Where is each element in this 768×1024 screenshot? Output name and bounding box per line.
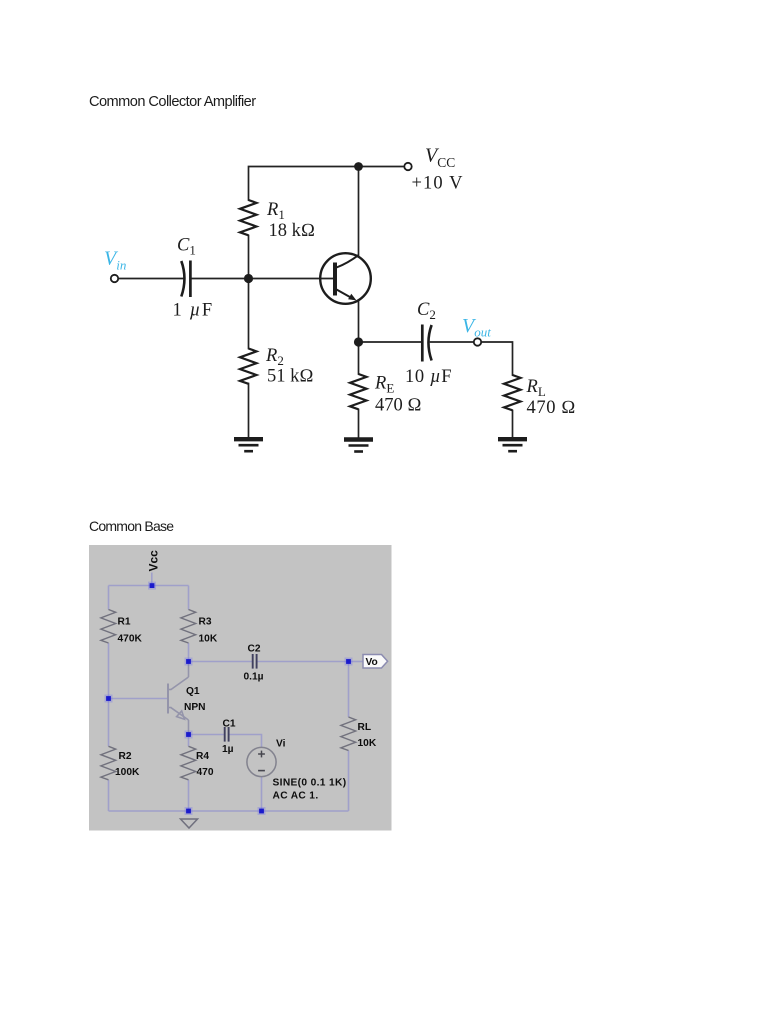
node base junction: [105, 695, 113, 703]
wire R2 bottom to ground: [248, 384, 250, 438]
svg-text:1 µF: 1 µF: [173, 301, 214, 321]
wire C2 to Vout terminal: [431, 341, 474, 343]
svg-text:R1: R1: [266, 200, 285, 222]
junction dots (blue squares): [105, 582, 353, 815]
capacitor C2 curved plate: [428, 325, 431, 361]
resistor R4 470: [181, 746, 196, 779]
svg-text:10K: 10K: [199, 633, 218, 644]
node Vo junction: [345, 658, 353, 666]
wire Vi bottom to bottom rail: [261, 776, 263, 811]
capacitor C1 1u plates: [225, 727, 229, 742]
svg-text:Vin: Vin: [104, 248, 126, 273]
source Vi circle: [247, 747, 276, 776]
svg-text:470: 470: [197, 767, 214, 778]
ground flag: [181, 819, 198, 828]
node R4 bottom junction: [185, 807, 193, 815]
terminal Vin open circle: [111, 275, 118, 282]
wire Vo node to RL: [348, 662, 350, 718]
source Vi plus sign: [258, 751, 265, 758]
wire C1 to Vi top: [229, 735, 261, 748]
title: Common Collector Amplifier: [89, 94, 256, 110]
resistor RL 470: [504, 375, 521, 410]
svg-text:NPN: NPN: [184, 702, 206, 713]
resistor RE 470: [350, 374, 367, 409]
source Vi minus sign: [258, 770, 265, 772]
svg-text:R3: R3: [199, 617, 212, 628]
resistor R1 470K: [101, 610, 116, 643]
screenshot gray background: [89, 545, 392, 831]
svg-text:RL: RL: [526, 377, 546, 399]
wire R4 bottom to bottom rail: [188, 780, 190, 811]
svg-text:C2: C2: [417, 300, 436, 322]
wire top rail: [109, 585, 189, 587]
node Vcc junction: [148, 582, 156, 590]
svg-text:RE: RE: [374, 374, 394, 396]
wire R2 bottom to bottom rail: [108, 780, 110, 811]
svg-text:C2: C2: [248, 643, 261, 654]
wire collector node to C2: [189, 661, 253, 663]
resistor R3 10K: [181, 610, 196, 643]
wire top rail to R1: [108, 586, 110, 610]
svg-text:RL: RL: [358, 722, 372, 733]
wire RL bottom to bottom rail: [348, 751, 350, 812]
svg-text:R1: R1: [118, 617, 131, 628]
ground below R2: [234, 439, 263, 451]
svg-text:C1: C1: [223, 718, 236, 729]
wire base node to Q1 base: [109, 698, 168, 700]
node collector junction: [185, 658, 193, 666]
wire top rail to R3: [188, 586, 190, 610]
node: emitter junction dot: [354, 337, 363, 346]
svg-text:R2: R2: [119, 751, 132, 762]
transistor base bar: [333, 263, 337, 296]
wire emitter node to R4: [188, 735, 190, 747]
svg-text:10K: 10K: [358, 738, 377, 749]
wire emitter down to emitter node: [358, 301, 360, 342]
svg-text:Vo: Vo: [366, 657, 378, 668]
resistor R2 51k: [240, 349, 257, 384]
transistor emitter arrowhead: [348, 294, 356, 301]
ground below RL: [498, 439, 527, 451]
wire RL bottom to ground: [512, 411, 514, 439]
resistor R1 18k: [240, 200, 257, 235]
svg-text:1µ: 1µ: [222, 744, 234, 755]
svg-text:R2: R2: [265, 346, 284, 368]
capacitor C1 straight plate: [189, 261, 192, 298]
node Vi bottom junction: [258, 807, 266, 815]
svg-text:100K: 100K: [115, 767, 140, 778]
wire Vout terminal to RL: [481, 342, 512, 375]
svg-text:18 kΩ: 18 kΩ: [269, 221, 316, 241]
svg-text:0.1µ: 0.1µ: [244, 672, 264, 683]
svg-text:SINE(0 0.1 1K): SINE(0 0.1 1K): [273, 777, 347, 788]
svg-text:51 kΩ: 51 kΩ: [267, 366, 314, 386]
wire R1 bottom to R2 top: [108, 643, 110, 746]
wire Vo node to flag: [349, 661, 363, 663]
wire R1 bottom to base node: [248, 236, 250, 279]
ground below RE: [344, 440, 373, 452]
transistor emitter lead: [337, 290, 354, 300]
resistor RL 10K: [341, 717, 356, 750]
node: top rail junction dot: [354, 162, 363, 171]
title: Common Base: [89, 518, 173, 534]
wire C2 to Vo node: [257, 661, 348, 663]
wire Vcc stub: [151, 573, 153, 586]
wire bottom rail: [109, 810, 349, 812]
transistor collector lead: [337, 255, 359, 268]
node emitter junction: [185, 731, 193, 739]
wire base node to R2 top: [248, 279, 250, 349]
wire emitter node to C1: [189, 734, 225, 736]
wire emitter node to RE: [358, 342, 360, 374]
svg-text:AC AC 1.: AC AC 1.: [273, 790, 319, 801]
svg-text:470 Ω: 470 Ω: [375, 396, 422, 416]
wire emitter node to C2: [359, 341, 422, 343]
svg-text:VCC: VCC: [425, 145, 455, 171]
wire top rail: [249, 167, 405, 201]
wire Vin to C1: [118, 278, 184, 280]
svg-text:+10 V: +10 V: [412, 174, 464, 194]
resistor R2 100K: [101, 746, 116, 779]
wire R3 bottom to collector node: [188, 643, 190, 662]
svg-text:10 µF: 10 µF: [405, 367, 452, 387]
svg-text:Q1: Q1: [186, 686, 200, 697]
transistor Q1 NPN: [168, 664, 189, 735]
svg-text:R4: R4: [196, 751, 209, 762]
terminal Vout open circle: [474, 338, 481, 345]
capacitor C1 1uF curved plate: [181, 261, 184, 297]
node: base junction dot: [244, 274, 253, 283]
svg-text:Vi: Vi: [276, 739, 286, 750]
svg-text:470 Ω: 470 Ω: [527, 398, 577, 418]
svg-text:Vout: Vout: [462, 315, 491, 340]
wire RE bottom to ground: [358, 410, 360, 439]
capacitor C2 straight plate: [421, 325, 424, 362]
transistor Q circle: [320, 253, 371, 304]
output flag Vo: [363, 655, 388, 669]
wire collector to top rail: [358, 167, 360, 257]
terminal Vcc open circle: [404, 163, 411, 170]
svg-text:C1: C1: [177, 236, 196, 258]
capacitor C2 0.1u plates: [253, 654, 257, 669]
svg-text:Vcc: Vcc: [146, 550, 160, 572]
wire C1 to base of Q: [191, 278, 334, 280]
svg-text:470K: 470K: [118, 633, 143, 644]
